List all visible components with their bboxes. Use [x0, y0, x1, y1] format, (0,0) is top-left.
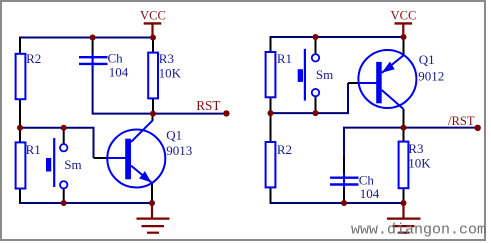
svg-text:Q1: Q1 [419, 52, 435, 67]
svg-text:/RST: /RST [448, 114, 475, 128]
svg-text:104: 104 [109, 65, 129, 80]
svg-text:Sm: Sm [316, 67, 333, 82]
svg-text:10K: 10K [159, 65, 182, 80]
svg-text:104: 104 [360, 186, 380, 201]
svg-text:R1: R1 [277, 51, 292, 66]
svg-text:Ch: Ch [108, 51, 124, 66]
svg-text:R1: R1 [26, 142, 41, 157]
svg-text:R2: R2 [277, 142, 292, 157]
svg-text:10K: 10K [408, 156, 431, 171]
svg-text:9012: 9012 [418, 68, 444, 83]
svg-text:R2: R2 [26, 51, 41, 66]
svg-text:R3: R3 [408, 141, 423, 156]
svg-text:Sm: Sm [64, 157, 81, 172]
svg-text:Q1: Q1 [166, 128, 182, 143]
svg-text:9013: 9013 [166, 143, 192, 158]
svg-text:RST: RST [196, 98, 220, 113]
svg-text:VCC: VCC [140, 9, 166, 23]
svg-text:R3: R3 [159, 51, 174, 66]
svg-text:VCC: VCC [391, 9, 417, 23]
svg-text:www.diangon.com: www.diangon.com [351, 222, 486, 239]
